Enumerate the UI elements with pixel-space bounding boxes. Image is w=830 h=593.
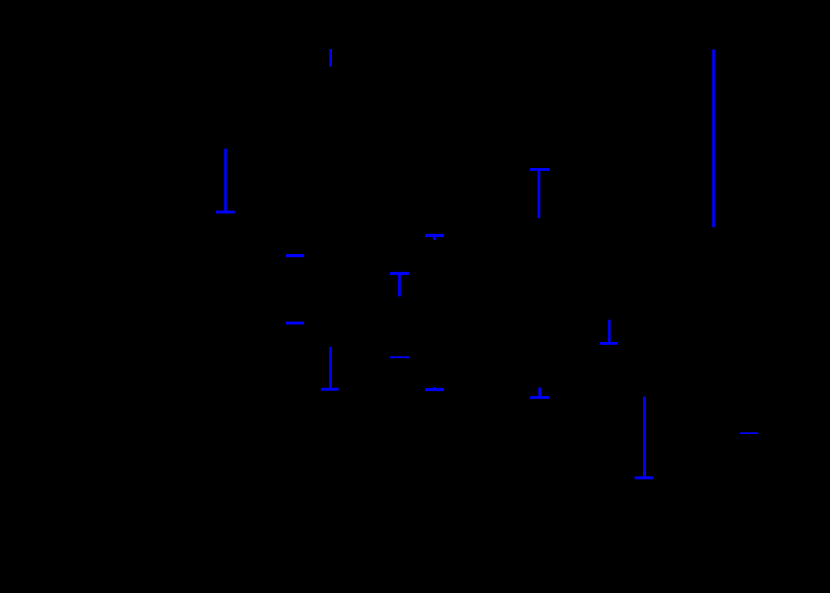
- pin P11 (lead with end cap below): [600, 320, 618, 345]
- pin P12 (long lead with end cap below): [635, 397, 653, 480]
- pin end cap P13: [740, 432, 758, 434]
- pin P4 (end cap with short stub down): [425, 234, 444, 240]
- pin end cap P3: [286, 322, 304, 325]
- pin P10 (lead with end cap below): [530, 387, 549, 399]
- pin P6 (vertical lead with end cap): [321, 347, 339, 391]
- pin end cap P2: [286, 254, 304, 257]
- wire W2: [712, 49, 715, 227]
- pin P1 (vertical lead with end cap): [216, 149, 235, 214]
- pin P9 (end cap with lead down): [530, 168, 550, 218]
- wire W1: [329, 49, 332, 67]
- pin end cap P7: [390, 356, 409, 358]
- pin P8 (end cap with short stub up): [425, 387, 444, 391]
- pin P5 (end cap with lead down): [390, 272, 409, 297]
